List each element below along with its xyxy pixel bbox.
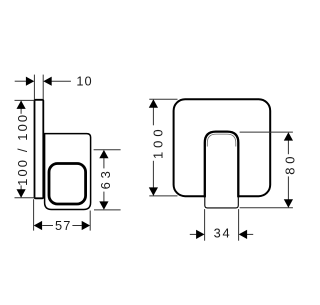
arrow pointing left at right ext [43,77,51,86]
arrow pointing right at left ext [26,77,34,86]
front view: handle (inverted U) [205,132,239,198]
front view: plate [174,99,271,196]
dimension 100 / 100 (left) [15,100,35,197]
arrow up [99,150,108,158]
arrow down [149,187,158,195]
svg-text:100 / 100: 100 / 100 [15,113,30,186]
svg-text:34: 34 [214,226,230,241]
dimension 80 (right of front view) [240,132,293,208]
side view: wall plate [35,100,44,199]
dimension 63 (right of side view) [94,150,121,210]
arrow up [284,132,293,140]
svg-text:57: 57 [55,218,70,233]
svg-text:100: 100 [150,125,165,159]
side view: opening (thick rounded rect) [49,164,86,205]
svg-text:63: 63 [98,167,113,189]
svg-text:80: 80 [283,153,298,175]
dimension 57 (bottom of side view) [34,199,91,230]
dim line tails [15,80,27,82]
arrow down [99,201,108,209]
arrow right [82,221,90,230]
arrow up [149,99,158,107]
extension lines [33,75,35,100]
arrow up [17,101,26,109]
dimension 34 (bottom of front view) [190,209,253,241]
arrow down [17,189,26,197]
arrow pointing left at right ext [239,230,247,239]
dimension 100 (left of front view) [149,99,177,196]
side view: holder body outline [43,134,90,210]
handle inner contour line [207,134,236,146]
front view: handle lower part (thin below plate) [205,193,239,208]
arrow pointing right at left ext [196,230,204,239]
dimension 10 (top) [15,75,71,100]
arrow left [34,221,42,230]
svg-text:10: 10 [76,73,91,88]
arrow down [284,199,293,207]
